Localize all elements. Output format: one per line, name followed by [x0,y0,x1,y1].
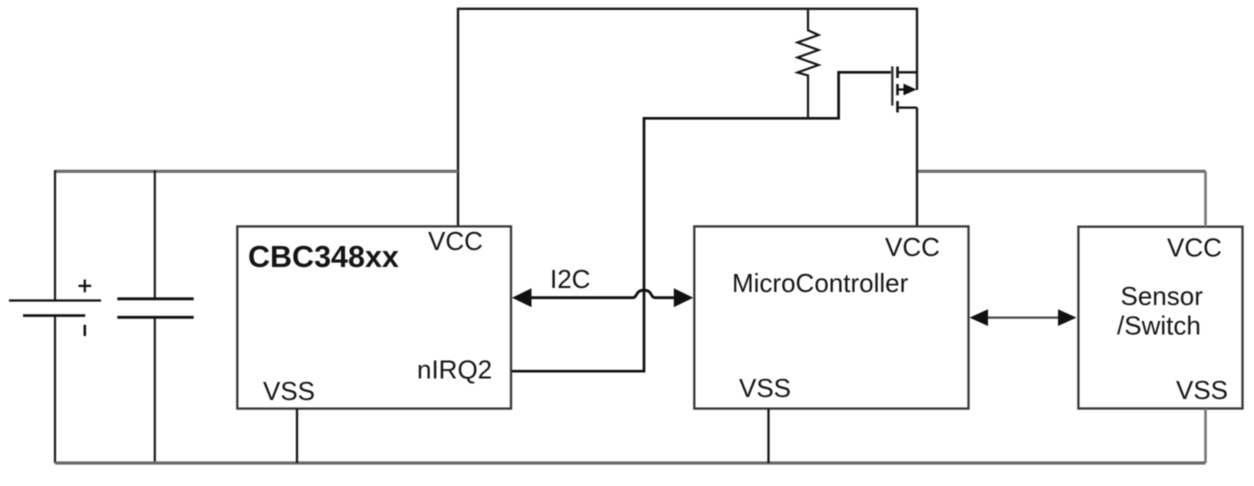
svg-text:VSS: VSS [739,373,791,403]
svg-text:VCC: VCC [885,232,940,262]
transistor Q1 (P-MOSFET) [892,66,917,112]
IC U1 CBC348xx box [237,226,511,408]
wire capacitor top lead [154,170,156,298]
svg-text:nIRQ2: nIRQ2 [417,355,492,385]
wire U1 VSS to rail [296,409,298,463]
wire Q1 drain to top bus [916,8,918,90]
wire top VCC bus [458,8,917,10]
wire U3 VSS to rail [1204,409,1207,464]
wire U2 VSS to rail [767,409,769,463]
svg-text:VCC: VCC [428,226,483,256]
bus arrow U2 to U3 [970,309,1077,326]
wire battery top lead [54,170,56,300]
wire Q1 source to MicroController VCC [916,108,918,227]
wire CBC VCC riser [457,8,459,227]
wire left VCC rail [55,170,458,173]
IC U2 MicroController box [694,226,968,408]
svg-text:VSS: VSS [263,376,315,406]
wire battery bottom lead [54,316,56,463]
IC U3 Sensor/Switch box [1078,227,1242,409]
svg-text:VSS: VSS [1176,375,1228,405]
svg-text:Sensor: Sensor [1121,281,1204,311]
wire U3 VCC to rail [1204,171,1207,226]
wire nIRQ2 to gate net [511,72,891,371]
svg-text:CBC348xx: CBC348xx [248,240,399,274]
wire capacitor bottom lead [154,317,156,463]
svg-text:VCC: VCC [1167,233,1222,263]
svg-text:/Switch: /Switch [1117,311,1201,341]
wire right VCC rail [917,170,1206,173]
battery BT1 [9,280,101,337]
svg-text:MicroController: MicroController [732,268,909,298]
wire bottom VSS rail [55,461,1206,464]
resistor R1 [798,9,819,119]
I2C bus arrow with hop [512,288,693,307]
capacitor C1 [117,299,193,318]
svg-text:I2C: I2C [550,264,590,294]
